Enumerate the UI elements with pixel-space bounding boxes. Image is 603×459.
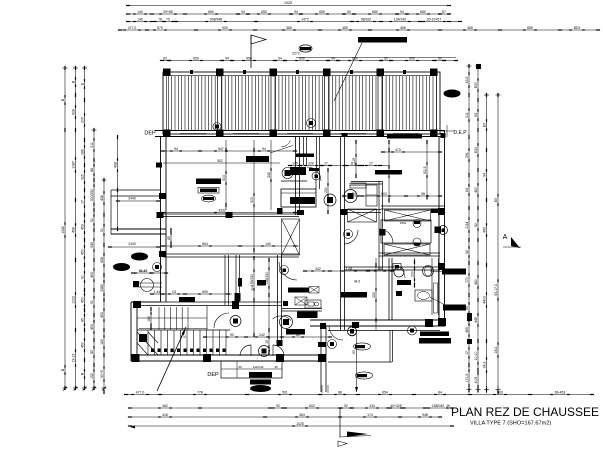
left dimension column 3	[84, 68, 86, 388]
svg-text:92: 92	[276, 404, 280, 408]
DEP duct bottom	[221, 361, 282, 378]
svg-text:343: 343	[267, 172, 271, 178]
svg-text:545: 545	[90, 242, 94, 248]
wc room circle	[280, 316, 293, 329]
svg-text:60: 60	[438, 56, 442, 60]
door arc left of master	[344, 230, 358, 244]
svg-text:E2.5: E2.5	[423, 166, 427, 173]
right dimension column 2	[477, 66, 479, 390]
washbasin top	[423, 266, 434, 277]
kitchen door arc	[214, 313, 229, 328]
svg-text:804: 804	[202, 242, 208, 246]
svg-text:40-42: 40-42	[139, 269, 147, 273]
svg-text:134/142: 134/142	[394, 17, 406, 21]
svg-text:29+65: 29+65	[163, 10, 173, 14]
stairs tread dots	[151, 349, 154, 353]
svg-text:450: 450	[80, 249, 84, 255]
wc room label bar	[397, 280, 411, 285]
svg-text:134: 134	[369, 404, 375, 408]
kitchen wall left	[224, 255, 226, 305]
bottom ticks under building	[321, 385, 323, 393]
chimney black stack	[249, 372, 272, 378]
svg-text:453: 453	[90, 324, 94, 330]
svg-text:908/948: 908/948	[210, 17, 222, 21]
svg-text:4.05: 4.05	[474, 377, 478, 384]
right wall circle marker	[435, 227, 442, 234]
patio top edge	[328, 330, 440, 332]
svg-text:503: 503	[250, 197, 254, 203]
svg-text:54-17.3: 54-17.3	[494, 284, 498, 296]
kitchen label bar	[341, 292, 367, 298]
hall bar2	[375, 170, 402, 175]
H1 left column	[157, 212, 164, 218]
bath corner detail	[270, 146, 293, 154]
svg-text:15: 15	[265, 340, 269, 344]
label tag oval	[299, 45, 312, 52]
stairs corner hatch	[137, 332, 158, 355]
svg-text:453: 453	[90, 272, 94, 278]
svg-text:84: 84	[438, 390, 442, 394]
svg-text:92: 92	[344, 404, 348, 408]
svg-text:74: 74	[352, 192, 356, 196]
sejour inner dim verticals	[225, 140, 227, 210]
svg-text:64: 64	[465, 188, 469, 192]
right wing wall H5 right	[381, 205, 445, 207]
svg-text:92: 92	[474, 223, 478, 227]
door arc master	[379, 229, 393, 243]
svg-text:163: 163	[147, 316, 151, 322]
svg-text:2.84: 2.84	[465, 222, 469, 229]
central black bar 1	[296, 154, 314, 158]
svg-text:155/150: 155/150	[265, 272, 269, 284]
svg-text:149/142: 149/142	[253, 365, 264, 369]
entry column	[277, 340, 283, 346]
sejour junction column	[226, 212, 233, 218]
svg-text:650: 650	[208, 10, 214, 14]
bottom right wc	[394, 267, 404, 277]
svg-text:859: 859	[527, 26, 533, 30]
central vertical dim	[327, 170, 329, 212]
svg-text:452: 452	[162, 404, 168, 408]
svg-text:51: 51	[90, 218, 94, 222]
svg-text:1023: 1023	[71, 296, 75, 304]
top wall window bar	[387, 135, 422, 139]
svg-text:220: 220	[308, 161, 314, 165]
svg-text:E50: E50	[474, 82, 478, 88]
bottom wall left part	[131, 354, 322, 356]
patio left wall	[320, 326, 322, 392]
right wing vertical V4	[378, 181, 380, 270]
interior wall H1	[163, 213, 299, 215]
svg-text:94: 94	[331, 56, 335, 60]
wc mid circle	[230, 316, 241, 327]
hall wall vertical x277	[277, 255, 279, 342]
svg-text:60: 60	[296, 333, 300, 337]
wc circle left	[324, 194, 336, 206]
svg-text:474: 474	[180, 335, 186, 339]
svg-text:325: 325	[80, 174, 84, 180]
svg-text:19-15: 19-15	[71, 354, 75, 363]
svg-text:503: 503	[222, 175, 226, 181]
kitchen wall left2	[235, 255, 237, 302]
porch lower dims	[133, 272, 166, 274]
sejour left mini dim	[170, 228, 172, 248]
svg-text:654: 654	[382, 390, 388, 394]
black bar right	[431, 209, 445, 214]
central partition walls	[303, 137, 305, 165]
left dimension column 2	[75, 68, 77, 388]
interior wall vertical corridor V2	[295, 136, 297, 215]
fixture rects right	[366, 185, 377, 206]
svg-text:602: 602	[309, 404, 315, 408]
svg-text:34.6: 34.6	[354, 280, 360, 284]
svg-text:1.68: 1.68	[346, 267, 353, 271]
svg-text:1501: 1501	[400, 221, 407, 225]
patio ovals	[354, 343, 371, 350]
right black oval tag	[444, 90, 461, 98]
svg-text:88: 88	[338, 390, 342, 394]
svg-text:603: 603	[381, 192, 387, 196]
svg-text:140: 140	[137, 17, 143, 21]
svg-text:10-10: 10-10	[474, 352, 478, 361]
central block counter	[281, 189, 316, 207]
right wing wall H6	[379, 252, 440, 254]
svg-text:VILLA TYPE 7 (SHO=167.67m2): VILLA TYPE 7 (SHO=167.67m2)	[470, 421, 551, 427]
mid vertical dim 545	[268, 258, 270, 355]
svg-text:PLAN REZ DE CHAUSSEE: PLAN REZ DE CHAUSSEE	[451, 405, 599, 419]
patio inner lines	[389, 330, 391, 362]
svg-text:690: 690	[202, 290, 208, 294]
svg-text:418: 418	[162, 413, 168, 417]
terrace deck outline	[163, 72, 440, 134]
kitchenette small xbox	[309, 287, 319, 294]
svg-text:94: 94	[225, 56, 229, 60]
svg-text:98: 98	[421, 192, 425, 196]
central door arc	[307, 167, 321, 181]
duct down arrow	[236, 361, 238, 378]
porch floor edge lines	[133, 282, 162, 284]
svg-text:453: 453	[80, 224, 84, 230]
black bars outside right wall	[442, 269, 466, 275]
wall y309 segment	[282, 308, 322, 310]
svg-text:94: 94	[482, 173, 486, 177]
terrace columns top edge	[163, 69, 171, 77]
svg-text:455: 455	[400, 26, 406, 30]
svg-text:230: 230	[324, 187, 328, 193]
svg-text:563: 563	[497, 390, 503, 394]
narrow shower strip	[431, 258, 433, 315]
right wing wall H7	[344, 266, 440, 268]
svg-text:460: 460	[474, 187, 478, 193]
svg-text:438: 438	[113, 162, 117, 168]
svg-text:1025: 1025	[284, 1, 292, 5]
svg-text:2272: 2272	[292, 52, 300, 56]
left wall window bar	[156, 163, 162, 168]
svg-text:364: 364	[299, 413, 305, 417]
xbox wardrobe B	[385, 210, 431, 221]
svg-text:94: 94	[241, 10, 245, 14]
svg-text:63: 63	[352, 350, 356, 354]
central dim row	[290, 165, 390, 167]
section flag north	[250, 35, 252, 68]
right wing wall H5 left	[340, 209, 381, 211]
stairs inner dim col	[150, 307, 152, 330]
sejour table	[198, 188, 219, 194]
kitchenette black sq	[283, 301, 288, 306]
svg-text:D.E.P: D.E.P	[453, 130, 467, 136]
svg-text:60: 60	[384, 56, 388, 60]
svg-text:E2: E2	[385, 170, 389, 174]
svg-text:650: 650	[193, 56, 199, 60]
svg-text:230: 230	[410, 271, 414, 277]
entry double door	[240, 345, 251, 356]
svg-text:85: 85	[90, 350, 94, 354]
svg-text:92: 92	[465, 250, 469, 254]
svg-text:17: 17	[465, 351, 469, 355]
bottom section flag	[339, 408, 341, 437]
bottom dimension row 4	[130, 425, 452, 427]
washbasin lower	[415, 290, 432, 301]
svg-text:1472: 1472	[301, 17, 309, 21]
svg-text:60: 60	[347, 10, 351, 14]
bed master	[381, 220, 431, 243]
bottom dimension row 2	[130, 407, 452, 409]
svg-text:51: 51	[100, 228, 104, 232]
bottom dimension row 1	[126, 394, 592, 396]
svg-text:650: 650	[420, 10, 426, 14]
svg-text:650: 650	[372, 10, 378, 14]
svg-text:88: 88	[90, 168, 94, 172]
svg-text:253: 253	[372, 292, 376, 298]
svg-text:211: 211	[90, 142, 94, 148]
laundry dim col	[375, 258, 377, 330]
svg-text:438: 438	[100, 195, 104, 201]
patio circles	[328, 340, 337, 349]
svg-text:650: 650	[246, 56, 252, 60]
svg-text:291: 291	[465, 152, 469, 158]
svg-text:69-453: 69-453	[555, 390, 566, 394]
svg-text:E5: E5	[482, 123, 486, 127]
svg-text:1087: 1087	[71, 161, 75, 169]
svg-text:168/040: 168/040	[432, 404, 444, 408]
svg-text:650: 650	[319, 10, 325, 14]
sejour furniture bar	[196, 179, 221, 185]
xbox wardrobe A	[348, 209, 377, 222]
corridor junction column	[232, 301, 239, 309]
left stair block wall	[130, 302, 132, 361]
right dimension column 4	[497, 95, 499, 392]
svg-text:900: 900	[222, 26, 228, 30]
laundry dim row	[305, 270, 392, 272]
svg-text:91: 91	[80, 275, 84, 279]
interior wall H2	[163, 253, 299, 255]
svg-text:94: 94	[278, 56, 282, 60]
bottom wall column x352	[352, 322, 359, 328]
svg-text:E5: E5	[494, 198, 498, 202]
bath dim col	[414, 258, 416, 288]
svg-text:300/250: 300/250	[90, 189, 94, 201]
stairs lower flight treads	[147, 330, 149, 355]
stairs dim	[205, 336, 330, 338]
svg-text:94: 94	[262, 147, 266, 151]
left dim columns end marks	[63, 387, 68, 389]
left dimension column 1	[64, 68, 66, 388]
svg-text:2440: 2440	[128, 197, 136, 201]
svg-text:948: 948	[422, 413, 428, 417]
left dimension column 4	[93, 130, 95, 388]
kitchenette counter bar	[288, 288, 309, 293]
svg-text:152: 152	[90, 373, 94, 379]
chambre1 dim	[163, 212, 295, 214]
svg-text:450: 450	[80, 297, 84, 303]
terrace small ticks top edge	[190, 70, 193, 74]
stairs diagonal arrow	[157, 327, 186, 391]
svg-text:445: 445	[474, 317, 478, 323]
right dimension column 3	[486, 95, 488, 390]
black bar wc room	[286, 329, 305, 335]
left ovals porch	[113, 263, 130, 271]
svg-text:174: 174	[367, 413, 373, 417]
svg-text:2385: 2385	[100, 284, 104, 292]
svg-text:63: 63	[163, 56, 167, 60]
svg-text:45: 45	[446, 404, 450, 408]
svg-text:98/100: 98/100	[361, 17, 371, 21]
svg-text:465: 465	[465, 327, 469, 333]
tall xbox hall	[282, 219, 300, 255]
kitchenette sink rect	[305, 300, 321, 308]
svg-text:94: 94	[400, 10, 404, 14]
svg-text:171.5: 171.5	[465, 374, 469, 383]
svg-text:DEP: DEP	[207, 372, 219, 378]
right wing vertical V5	[388, 258, 390, 320]
svg-text:458: 458	[71, 227, 75, 233]
svg-text:45: 45	[274, 365, 278, 369]
svg-text:205: 205	[80, 117, 84, 123]
svg-text:778: 778	[197, 390, 203, 394]
corridor dim	[344, 195, 440, 197]
svg-text:450: 450	[80, 342, 84, 348]
svg-text:75: 75	[166, 17, 170, 21]
svg-text:650: 650	[409, 56, 415, 60]
window marks top wall	[180, 133, 206, 135]
interior wall H3 corridor-stairs	[137, 301, 282, 303]
vertical dim at porch	[117, 137, 119, 229]
left wall	[160, 136, 162, 302]
right wing bath top wall	[351, 181, 382, 183]
svg-text:140: 140	[265, 242, 271, 246]
stairs upper treads	[158, 307, 160, 330]
svg-text:477.0: 477.0	[128, 26, 137, 30]
right dim columns end marks	[467, 389, 472, 391]
wc circle right	[344, 190, 357, 203]
svg-text:211: 211	[465, 112, 469, 118]
svg-text:28.2: 28.2	[494, 347, 498, 354]
svg-text:43.9: 43.9	[465, 77, 469, 84]
svg-text:17: 17	[80, 200, 84, 204]
dimension row top 2	[128, 13, 449, 15]
hall interior dims	[152, 293, 232, 295]
svg-text:502: 502	[217, 159, 223, 163]
svg-text:465: 465	[467, 26, 473, 30]
svg-text:17: 17	[324, 161, 328, 165]
svg-text:C3: C3	[172, 290, 176, 294]
svg-text:242: 242	[259, 333, 265, 337]
dimension row top 3	[128, 21, 460, 23]
patio centre dim	[356, 330, 358, 392]
hall narrow bar	[238, 278, 242, 287]
svg-text:94: 94	[294, 10, 298, 14]
svg-text:85: 85	[167, 236, 171, 240]
svg-text:90: 90	[238, 365, 242, 369]
svg-text:155/150: 155/150	[250, 274, 254, 286]
svg-text:650: 650	[261, 10, 267, 14]
patio wall top column	[320, 323, 326, 329]
central black bar 2	[290, 167, 306, 175]
left porch walls	[111, 189, 160, 191]
dimension row top 4	[120, 29, 598, 31]
svg-text:34.3: 34.3	[482, 362, 486, 369]
right wall column mid	[438, 208, 445, 215]
svg-text:140: 140	[137, 10, 143, 14]
bottom wall right part	[310, 319, 445, 321]
interior wall vertical V3 centre-right	[340, 136, 342, 330]
columns bottom wall	[132, 354, 140, 362]
svg-text:DEP: DEP	[144, 131, 156, 137]
svg-text:628: 628	[71, 109, 75, 115]
patio door arc	[329, 326, 343, 340]
svg-text:501: 501	[282, 390, 288, 394]
svg-text:1.44: 1.44	[154, 290, 161, 294]
stairs upper flight lines	[137, 317, 207, 319]
H1 x277 column	[277, 208, 283, 214]
leader line terrasse	[334, 43, 362, 101]
entry wc circle	[259, 346, 270, 357]
terrace circles bottom edge	[213, 123, 221, 131]
svg-text:1025: 1025	[296, 422, 304, 426]
leader lines to right bars	[430, 271, 445, 272]
svg-text:175: 175	[292, 161, 298, 165]
svg-text:50+5: 50+5	[100, 370, 104, 378]
svg-text:90: 90	[230, 333, 234, 337]
svg-text:20-20+57: 20-20+57	[427, 17, 442, 21]
svg-text:94: 94	[474, 113, 478, 117]
sejour dim line	[163, 150, 295, 152]
svg-text:A: A	[503, 234, 508, 241]
patio black bars right	[420, 332, 449, 337]
svg-text:48: 48	[378, 267, 382, 271]
svg-text:547: 547	[218, 147, 224, 151]
svg-text:342: 342	[315, 267, 321, 271]
svg-text:27: 27	[369, 161, 373, 165]
top right room dim col	[388, 140, 390, 203]
svg-text:E50: E50	[474, 147, 478, 153]
svg-text:85.9: 85.9	[574, 26, 581, 30]
terrasse accessible label	[358, 37, 407, 43]
svg-text:57: 57	[442, 10, 446, 14]
svg-text:650: 650	[299, 56, 305, 60]
svg-text:55: 55	[465, 306, 469, 310]
svg-text:460: 460	[474, 279, 478, 285]
svg-text:365: 365	[286, 26, 292, 30]
svg-text:477.0: 477.0	[136, 390, 145, 394]
svg-text:2440: 2440	[128, 242, 136, 246]
terrace inner column lines	[218, 76, 222, 131]
svg-text:770: 770	[465, 277, 469, 283]
svg-text:78: 78	[158, 17, 162, 21]
hall vertical dim 155	[253, 258, 255, 335]
left wall columns	[159, 193, 166, 199]
hall bar 413	[257, 280, 266, 286]
